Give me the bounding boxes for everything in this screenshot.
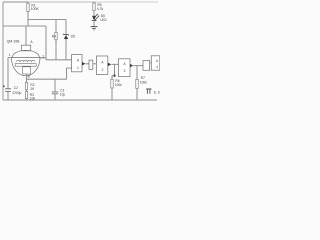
wire sensor pin1 to C2 bbox=[8, 58, 11, 89]
resistor R6 bbox=[111, 79, 122, 100]
svg-text:100k: 100k bbox=[140, 80, 147, 84]
svg-text:4.7k: 4.7k bbox=[97, 7, 104, 11]
ground bbox=[91, 27, 98, 30]
svg-text:100k: 100k bbox=[115, 83, 122, 87]
coupling element E2 bbox=[143, 61, 151, 71]
svg-text:10μ: 10μ bbox=[60, 93, 66, 97]
op-amp block A4 bbox=[151, 56, 160, 70]
wire A3 out to A4 bbox=[133, 65, 143, 67]
resistor R3 bbox=[25, 91, 35, 100]
wire rail to sensor bbox=[3, 25, 46, 27]
resistor R2 bbox=[25, 82, 35, 90]
op-amp block A1 bbox=[72, 55, 86, 72]
svg-text:10k: 10k bbox=[30, 97, 36, 101]
wire A1 out to coupling box bbox=[85, 63, 89, 65]
svg-text:C2: C2 bbox=[14, 86, 18, 90]
svg-text:1: 1 bbox=[9, 53, 11, 57]
svg-text:4: 4 bbox=[156, 65, 158, 69]
svg-text:QM-10B: QM-10B bbox=[7, 40, 20, 44]
zener diode D5 bbox=[64, 20, 75, 60]
gas sensor QM-10B bbox=[7, 40, 41, 76]
wire sensor pin B chain bbox=[27, 74, 30, 100]
wire sensor pin A drop bbox=[26, 26, 33, 45]
svg-text:2200μ: 2200μ bbox=[12, 91, 21, 95]
op-amp block A2 bbox=[96, 56, 111, 75]
svg-text:2: 2 bbox=[42, 55, 44, 59]
capacitor C3 bbox=[52, 79, 66, 100]
svg-text:LED: LED bbox=[100, 18, 107, 22]
wire junction drop to R6 bbox=[112, 64, 116, 79]
resistor R1 bbox=[27, 2, 40, 26]
svg-text:E. 6: E. 6 bbox=[154, 91, 160, 95]
resistor R7 bbox=[136, 66, 147, 100]
svg-text:R4: R4 bbox=[52, 35, 56, 39]
wire left border bbox=[2, 2, 4, 100]
resistor R4 bbox=[52, 20, 57, 60]
svg-text:D5: D5 bbox=[71, 35, 75, 39]
svg-text:3: 3 bbox=[124, 69, 126, 73]
op-amp block A3 bbox=[119, 59, 134, 77]
capacitor C2 bbox=[3, 85, 21, 100]
svg-text:1: 1 bbox=[77, 66, 79, 70]
coupling element E1 bbox=[89, 60, 96, 69]
wire pin2 riser bbox=[45, 26, 47, 60]
svg-text:2: 2 bbox=[101, 68, 103, 72]
wire mid rail bbox=[28, 19, 66, 21]
svg-text:B: B bbox=[28, 74, 30, 78]
wire top supply rail bbox=[3, 1, 158, 3]
wire bottom ground rail bbox=[3, 99, 157, 101]
wire feedback line to A1 lower input bbox=[27, 68, 72, 79]
resistor R5 bbox=[93, 2, 104, 15]
LED D6 bbox=[92, 14, 108, 27]
wire A2 out to A3 bbox=[111, 63, 118, 65]
wire sensor output to A1 bbox=[40, 55, 71, 60]
svg-text:100K: 100K bbox=[31, 7, 40, 11]
piezo buzzer B1 bbox=[146, 89, 160, 95]
